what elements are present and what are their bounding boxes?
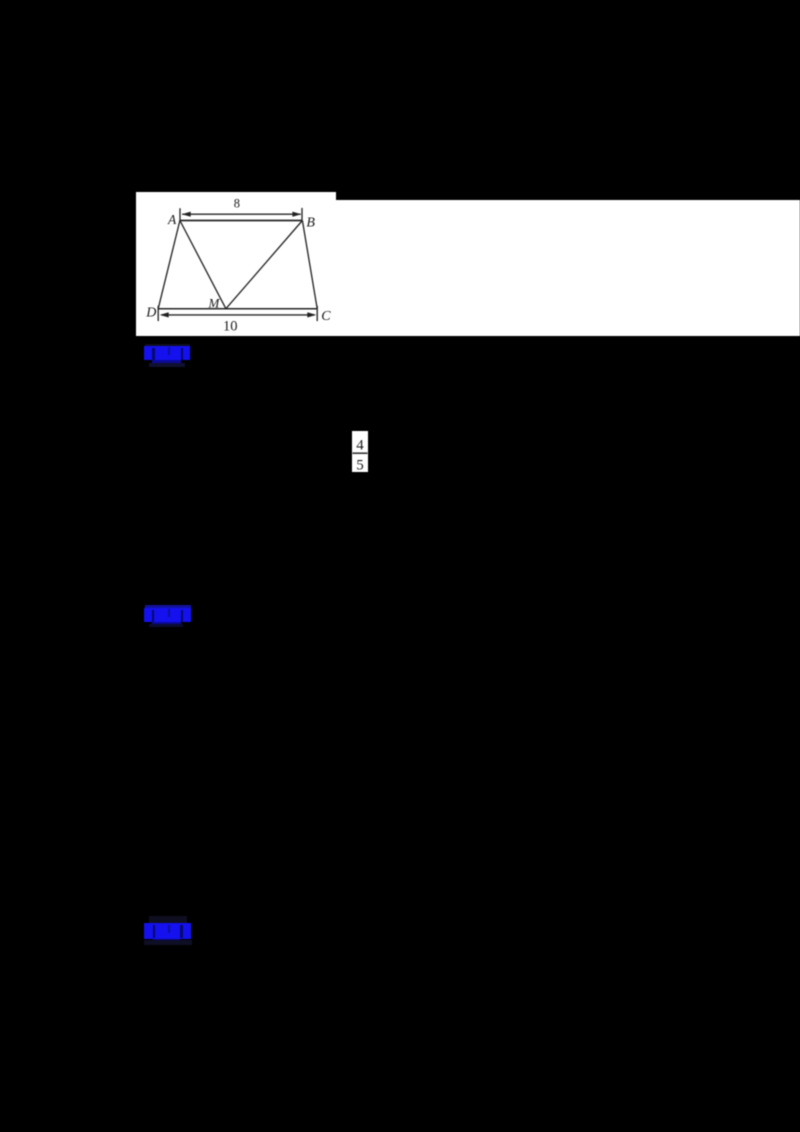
svg-text:5: 5 [356, 457, 364, 473]
svg-text:4: 4 [356, 437, 364, 453]
svg-text:A: A [167, 212, 177, 227]
svg-text:C: C [321, 309, 331, 324]
svg-text:M: M [208, 295, 221, 310]
svg-text:B: B [306, 215, 315, 230]
svg-text:10: 10 [223, 318, 238, 334]
svg-text:D: D [145, 305, 156, 320]
svg-text:8: 8 [234, 196, 240, 210]
